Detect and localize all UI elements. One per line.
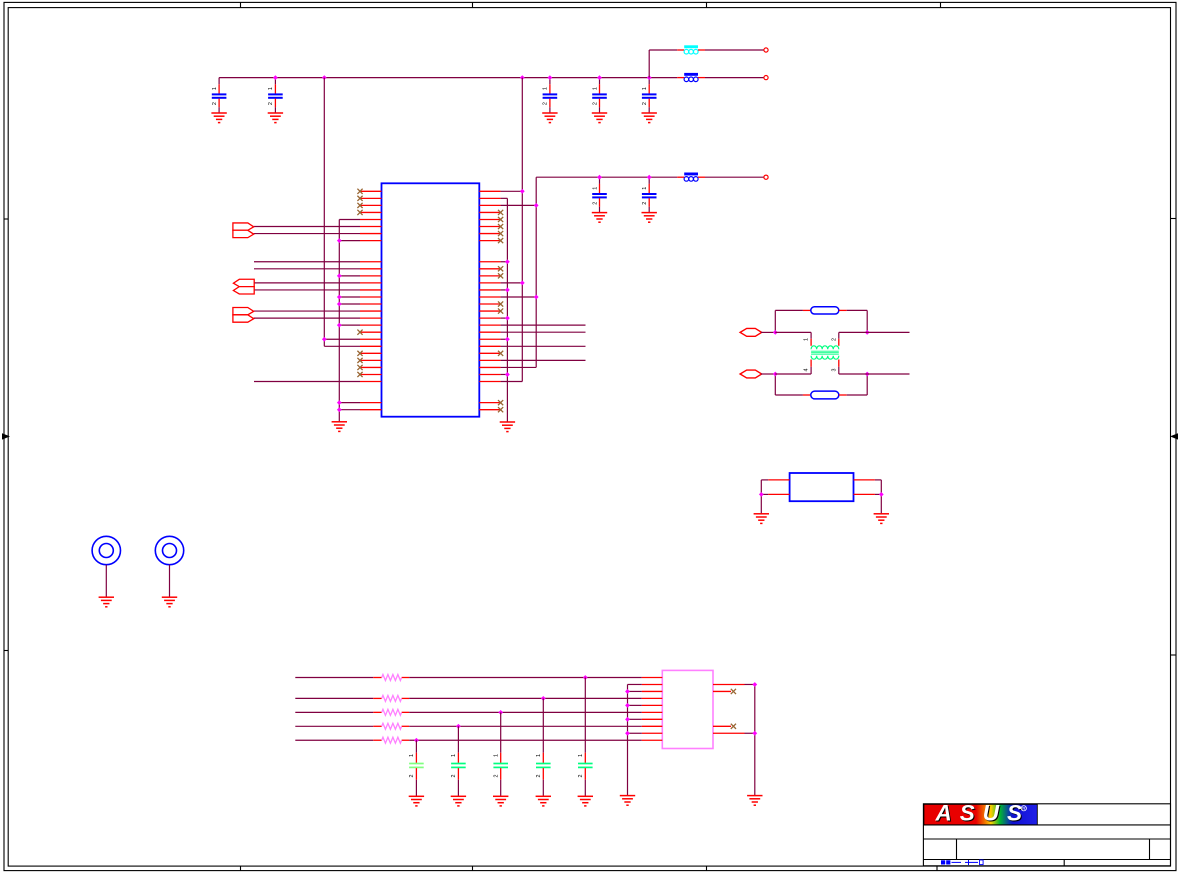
resistor R7 xyxy=(382,737,402,743)
capacitor C11 xyxy=(451,726,466,806)
svg-text:1: 1 xyxy=(543,87,549,90)
wire upper branch left xyxy=(649,49,677,51)
U1 left signal wires xyxy=(254,227,360,382)
svg-text:1: 1 xyxy=(578,754,584,757)
connector J3 xyxy=(764,175,768,179)
node Y1 left xyxy=(759,492,764,497)
node BR xyxy=(865,372,870,377)
wire v536 (rail2 to U1) xyxy=(535,177,537,367)
wire T1 out bottom xyxy=(867,373,909,375)
U1 left junctions xyxy=(322,238,342,412)
svg-text:ASUS: ASUS xyxy=(935,801,1031,826)
U1 right pin stubs xyxy=(479,191,500,409)
wire R1 right xyxy=(839,310,867,332)
wire upper branch right xyxy=(705,49,764,51)
port P4 xyxy=(740,328,762,336)
wire bottom w3 xyxy=(295,711,642,713)
wires Y1 left xyxy=(761,480,789,514)
node w1-cap xyxy=(583,675,588,680)
wire T1 out top xyxy=(867,331,909,333)
capacitor C6 xyxy=(592,177,607,222)
U2 left net wires xyxy=(628,684,642,733)
svg-text:1: 1 xyxy=(642,87,648,90)
svg-text:1: 1 xyxy=(409,754,415,757)
resistor R2 xyxy=(811,391,839,399)
ground v627 xyxy=(620,796,635,806)
wire v324 (rail1 to U1) xyxy=(323,78,325,347)
port P2 xyxy=(233,279,254,294)
op-amp U1 body xyxy=(382,183,480,416)
title block revision text xyxy=(941,860,983,865)
wire v507 (U1 right ground net) xyxy=(506,198,508,422)
ferrite bead FB3 xyxy=(684,173,698,182)
connector J1 xyxy=(764,48,768,52)
U1 right bus wires xyxy=(501,325,586,360)
mounting hole MH2 xyxy=(155,536,183,564)
resistor R1 xyxy=(811,307,839,314)
wire MH1 to ground xyxy=(105,565,107,597)
svg-text:2: 2 xyxy=(642,102,648,105)
wire rail1 xyxy=(219,77,677,79)
U2 right pin stubs xyxy=(713,684,745,733)
svg-text:2: 2 xyxy=(536,775,542,778)
U1 right no-connects xyxy=(498,210,503,412)
capacitor C2 xyxy=(268,78,283,123)
capacitor C4 xyxy=(592,78,607,123)
svg-text:2: 2 xyxy=(268,102,274,105)
svg-text:1: 1 xyxy=(592,87,598,90)
capacitor C5 xyxy=(642,78,657,123)
node rail2-C6 xyxy=(597,175,602,180)
pin FB2.1 xyxy=(677,77,684,79)
svg-text:2: 2 xyxy=(493,775,499,778)
ground MH2 xyxy=(162,597,177,607)
wire P5 mid xyxy=(775,373,811,375)
node rail1-C5 xyxy=(647,75,652,80)
connector J2 xyxy=(764,76,768,80)
wire riser to upper branch xyxy=(648,50,650,78)
wire R2 right xyxy=(839,374,867,395)
svg-text:1: 1 xyxy=(804,338,810,341)
wire left branch down xyxy=(774,374,776,395)
wire v339 (U1 left ground net) xyxy=(338,219,340,421)
U2 right net wires xyxy=(745,684,755,795)
node BL xyxy=(773,372,778,377)
svg-text:2: 2 xyxy=(451,775,457,778)
svg-text:2: 2 xyxy=(212,102,218,105)
svg-text:2: 2 xyxy=(543,102,549,105)
port P5 xyxy=(740,370,762,378)
node w5-cap xyxy=(414,738,419,743)
buffer U2 body xyxy=(662,670,713,748)
svg-text:3: 3 xyxy=(831,369,837,372)
transformer T1 xyxy=(804,332,839,374)
wire rail1 right xyxy=(705,77,764,79)
U2 left junctions xyxy=(625,689,630,736)
svg-text:1: 1 xyxy=(536,754,542,757)
node TR xyxy=(865,330,870,335)
svg-text:1: 1 xyxy=(592,187,598,190)
svg-text:2: 2 xyxy=(578,775,584,778)
pin FB2.2 xyxy=(698,77,705,79)
wire bottom w5 xyxy=(295,739,642,741)
wire v522 (rail1 to U1) xyxy=(521,78,523,382)
svg-text:2: 2 xyxy=(831,338,837,341)
wires Y1 right xyxy=(854,480,882,514)
ferrite bead FB1 xyxy=(684,45,698,54)
capacitor C8 xyxy=(578,678,593,806)
ground U1-left xyxy=(332,422,347,432)
ground U1-right xyxy=(500,422,515,432)
svg-text:1: 1 xyxy=(642,187,648,190)
title block xyxy=(923,804,1170,866)
wire rail2 xyxy=(536,176,677,178)
capacitor C9 xyxy=(536,698,551,805)
svg-text:1: 1 xyxy=(268,87,274,90)
U1 left no-connects xyxy=(357,189,362,377)
ground v754 xyxy=(747,796,762,806)
resistor R4 xyxy=(382,695,402,701)
capacitor C10 xyxy=(493,712,508,806)
U2 right junctions xyxy=(752,682,757,736)
svg-text:4: 4 xyxy=(804,369,810,372)
ground Y1 right xyxy=(874,514,889,524)
svg-text:1: 1 xyxy=(212,87,218,90)
node w3-cap xyxy=(498,710,503,715)
wire R2 left xyxy=(775,394,811,396)
capacitor C12 xyxy=(409,740,424,806)
svg-text:2: 2 xyxy=(642,202,648,205)
node rail1-C2 xyxy=(273,75,278,80)
node TL xyxy=(773,330,778,335)
wire P5 to node xyxy=(761,373,775,375)
resistor R5 xyxy=(382,709,402,715)
node w4-cap xyxy=(456,724,461,729)
node rail1-C4 xyxy=(597,75,602,80)
wire P4 mid xyxy=(775,331,811,333)
node rail1-C3 xyxy=(547,75,552,80)
ground Y1 left xyxy=(754,514,769,524)
U1 right junctions xyxy=(505,189,539,377)
filter Y1 body xyxy=(790,473,854,501)
pin FB1.2 xyxy=(698,49,705,51)
port P1 xyxy=(233,223,254,238)
svg-text:2: 2 xyxy=(592,102,598,105)
capacitor C3 xyxy=(542,78,557,123)
ASUS logo xyxy=(924,801,1037,827)
U1 left net wires xyxy=(324,219,360,409)
port P3 xyxy=(233,307,254,322)
wire bottom w2 xyxy=(295,697,642,699)
pin FB3.2 xyxy=(698,176,705,178)
svg-text:1: 1 xyxy=(493,754,499,757)
wire P4 to node xyxy=(761,331,775,333)
ground MH1 xyxy=(99,597,114,607)
U1 right net wires xyxy=(501,191,537,381)
wire bottom w1 xyxy=(295,677,642,679)
wire v627 ground net xyxy=(627,684,629,795)
resistor R3 xyxy=(382,675,402,681)
U1 left pin stubs xyxy=(360,191,382,409)
U2 right no-connects xyxy=(731,689,736,729)
svg-text:1: 1 xyxy=(451,754,457,757)
svg-text:2: 2 xyxy=(409,775,415,778)
wire bottom w4 xyxy=(295,725,642,727)
wire rail2 right xyxy=(705,176,764,178)
node rail2-C7 xyxy=(647,175,652,180)
wire T1 right mid bottom xyxy=(839,373,867,375)
node Y1 right xyxy=(879,492,884,497)
wire R1 left xyxy=(775,309,811,311)
capacitor C1 xyxy=(211,78,226,123)
wire left branch up xyxy=(774,310,776,332)
node w2-cap xyxy=(541,696,546,701)
wire T1 right mid top xyxy=(839,331,867,333)
pin FB1.1 xyxy=(677,49,684,51)
resistor R6 xyxy=(382,723,402,729)
svg-text:2: 2 xyxy=(592,202,598,205)
node rail1-v324 xyxy=(322,75,327,80)
capacitor C7 xyxy=(642,177,657,222)
mounting hole MH1 xyxy=(92,536,120,564)
ferrite bead FB2 xyxy=(684,73,698,82)
wire MH2 to ground xyxy=(169,565,171,597)
U2 left pin stubs xyxy=(642,678,663,741)
pin FB3.1 xyxy=(677,176,684,178)
node rail1-v522 xyxy=(520,75,525,80)
